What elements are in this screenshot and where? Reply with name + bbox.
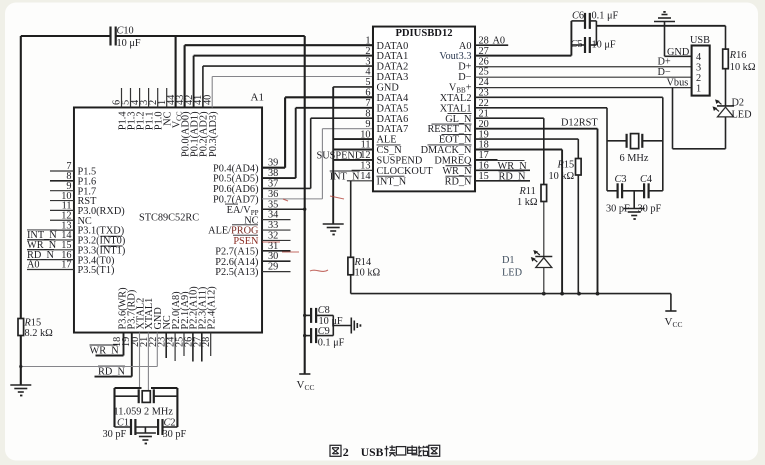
svg-text:D+: D+: [458, 62, 471, 73]
svg-text:DMREQ: DMREQ: [434, 156, 472, 167]
svg-text:10 μF: 10 μF: [592, 39, 616, 50]
svg-text:C1: C1: [117, 417, 129, 428]
svg-text:R16: R16: [729, 50, 747, 61]
svg-text:5: 5: [365, 77, 370, 88]
svg-text:10 kΩ: 10 kΩ: [355, 268, 381, 279]
svg-text:INT_N: INT_N: [377, 176, 407, 187]
svg-text:P0.3(AD3): P0.3(AD3): [208, 112, 219, 157]
svg-text:USB: USB: [361, 446, 384, 459]
svg-text:GND: GND: [377, 83, 400, 94]
svg-text:DATA0: DATA0: [377, 41, 409, 52]
svg-text:DATA2: DATA2: [377, 62, 409, 73]
svg-text:RESET_N: RESET_N: [427, 124, 472, 135]
svg-text:DATA4: DATA4: [377, 93, 409, 104]
svg-text:6 MHz: 6 MHz: [620, 153, 649, 164]
svg-text:SUSPEND: SUSPEND: [377, 156, 423, 167]
svg-text:10 kΩ: 10 kΩ: [730, 62, 756, 73]
svg-text:A0: A0: [493, 35, 506, 46]
svg-text:10: 10: [360, 129, 370, 140]
svg-text:DATA1: DATA1: [377, 51, 409, 62]
svg-text:PSEN: PSEN: [233, 236, 259, 247]
svg-text:WR_N: WR_N: [442, 166, 472, 177]
svg-text:RD_N: RD_N: [445, 176, 472, 187]
svg-text:RD_N: RD_N: [98, 366, 125, 377]
svg-text:C6: C6: [572, 10, 584, 21]
svg-text:C8: C8: [318, 305, 330, 316]
svg-text:DMACK_N: DMACK_N: [421, 145, 472, 156]
svg-text:10 μF: 10 μF: [117, 38, 141, 49]
svg-text:1 kΩ: 1 kΩ: [517, 197, 538, 208]
svg-text:C4: C4: [640, 174, 652, 185]
svg-text:7: 7: [365, 98, 370, 109]
svg-text:A0: A0: [27, 260, 40, 271]
svg-text:3: 3: [365, 56, 370, 67]
svg-text:C10: C10: [117, 26, 134, 37]
svg-text:8: 8: [365, 108, 370, 119]
svg-text:LED: LED: [732, 110, 753, 121]
svg-text:25: 25: [479, 67, 489, 78]
svg-text:8.2 kΩ: 8.2 kΩ: [25, 328, 54, 339]
svg-text:34: 34: [268, 210, 278, 221]
svg-text:30 pF: 30 pF: [103, 429, 127, 440]
svg-text:D1: D1: [502, 255, 515, 266]
svg-text:6: 6: [365, 88, 370, 99]
svg-text:28: 28: [479, 35, 489, 46]
svg-text:D−: D−: [658, 67, 671, 78]
svg-text:GL_N: GL_N: [445, 114, 472, 125]
svg-text:2: 2: [343, 445, 349, 459]
svg-text:DATA7: DATA7: [377, 124, 409, 135]
svg-text:24: 24: [479, 77, 489, 88]
svg-text:Vbus: Vbus: [667, 78, 689, 89]
svg-text:0.1 μF: 0.1 μF: [592, 10, 619, 21]
svg-text:C2: C2: [164, 417, 176, 428]
svg-text:C5: C5: [571, 39, 583, 50]
svg-text:PDIUSBD12: PDIUSBD12: [395, 28, 452, 39]
svg-text:D+: D+: [658, 57, 671, 68]
svg-text:0.1 μF: 0.1 μF: [318, 337, 345, 348]
svg-text:3: 3: [696, 63, 701, 74]
svg-text:P2.5(A13): P2.5(A13): [215, 267, 258, 278]
svg-text:P0.5(AD5): P0.5(AD5): [213, 174, 258, 185]
svg-text:D−: D−: [458, 72, 471, 83]
svg-text:RD_N: RD_N: [499, 171, 526, 182]
svg-text:STC89C52RC: STC89C52RC: [139, 213, 199, 224]
svg-text:EOT_N: EOT_N: [439, 135, 472, 146]
svg-text:XTAL1: XTAL1: [440, 103, 472, 114]
svg-text:11: 11: [361, 140, 371, 151]
svg-text:D2: D2: [732, 97, 745, 108]
svg-text:C3: C3: [615, 174, 627, 185]
svg-text:CS_N: CS_N: [377, 145, 403, 156]
svg-text:D12RST: D12RST: [561, 118, 598, 129]
svg-text:DATA3: DATA3: [377, 72, 409, 83]
svg-text:9: 9: [365, 119, 370, 130]
svg-text:P2.7(A15): P2.7(A15): [215, 246, 258, 257]
svg-text:17: 17: [61, 260, 71, 271]
svg-text:33: 33: [268, 220, 278, 231]
svg-text:DATA5: DATA5: [377, 103, 409, 114]
svg-text:1: 1: [365, 35, 370, 46]
svg-text:R11: R11: [519, 186, 536, 197]
svg-text:SUSPEND: SUSPEND: [317, 151, 363, 162]
svg-text:P2.6(A14): P2.6(A14): [215, 257, 258, 268]
svg-text:P0.6(AD6): P0.6(AD6): [213, 184, 258, 195]
svg-text:C9: C9: [318, 326, 330, 337]
svg-text:CLOCKOUT: CLOCKOUT: [377, 166, 434, 177]
svg-text:30 pF: 30 pF: [606, 204, 630, 215]
svg-text:P3.5(T1): P3.5(T1): [78, 265, 115, 276]
svg-text:12: 12: [360, 150, 370, 161]
svg-text:36: 36: [268, 189, 278, 200]
svg-text:13: 13: [360, 161, 370, 172]
svg-text:32: 32: [268, 230, 278, 241]
svg-text:R15: R15: [557, 159, 575, 170]
svg-text:2: 2: [696, 73, 701, 84]
svg-text:2: 2: [365, 46, 370, 57]
svg-text:A1: A1: [251, 92, 264, 104]
svg-text:WR_N: WR_N: [498, 161, 528, 172]
svg-text:P2.4(A12): P2.4(A12): [207, 286, 218, 329]
svg-text:30 pF: 30 pF: [163, 429, 187, 440]
svg-text:A0: A0: [459, 41, 472, 52]
svg-text:4: 4: [696, 52, 701, 63]
svg-text:26: 26: [479, 56, 489, 67]
svg-text:R14: R14: [354, 257, 372, 268]
svg-text:Vout3.3: Vout3.3: [439, 51, 471, 62]
svg-text:ALE: ALE: [377, 135, 397, 146]
svg-text:4: 4: [365, 67, 370, 78]
svg-text:11.059 2 MHz: 11.059 2 MHz: [114, 407, 174, 418]
svg-text:14: 14: [360, 171, 370, 182]
svg-text:WR_N: WR_N: [90, 345, 120, 356]
svg-text:29: 29: [268, 262, 278, 273]
svg-text:XTAL2: XTAL2: [440, 93, 472, 104]
svg-text:1: 1: [696, 83, 701, 94]
svg-text:30 pF: 30 pF: [638, 204, 662, 215]
svg-text:LED: LED: [502, 268, 523, 279]
svg-text:DATA6: DATA6: [377, 114, 409, 125]
svg-text:INT_N: INT_N: [330, 171, 360, 182]
svg-text:USB: USB: [690, 35, 710, 46]
svg-text:P0.4(AD4): P0.4(AD4): [213, 163, 258, 174]
